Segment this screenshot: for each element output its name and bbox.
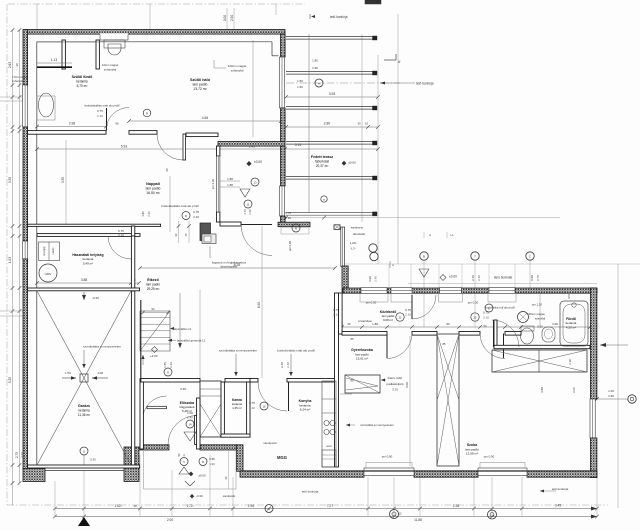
svg-text:7.27: 7.27 <box>327 504 333 508</box>
svg-text:pm 1,20: pm 1,20 <box>532 303 543 307</box>
svg-text:30: 30 <box>15 63 19 67</box>
svg-text:1.98: 1.98 <box>453 504 459 508</box>
svg-text:0.00: 0.00 <box>223 15 227 21</box>
svg-text:29,25 m²: 29,25 m² <box>147 287 160 291</box>
svg-text:1.55: 1.55 <box>163 362 167 368</box>
svg-text:1.50: 1.50 <box>312 66 318 70</box>
svg-text:2.40: 2.40 <box>147 211 151 217</box>
svg-text:12: 12 <box>398 512 402 516</box>
svg-text:zuhanyfal: zuhanyfal <box>12 79 24 83</box>
svg-text:pm 3,30: pm 3,30 <box>211 179 215 190</box>
svg-text:R: R <box>146 112 148 116</box>
svg-text:1,20¹: 1,20¹ <box>350 241 357 245</box>
svg-text:2.10: 2.10 <box>483 316 489 320</box>
svg-text:lam padló: lam padló <box>193 83 208 87</box>
svg-text:3.80: 3.80 <box>540 387 544 393</box>
svg-text:120cm magas: 120cm magas <box>228 64 247 68</box>
svg-text:3.88: 3.88 <box>81 278 88 282</box>
svg-text:±0.00: ±0.00 <box>449 275 457 279</box>
svg-text:1,35 m²: 1,35 m² <box>232 406 242 410</box>
svg-text:1.93: 1.93 <box>8 257 12 263</box>
svg-text:2.18: 2.18 <box>568 359 572 365</box>
svg-text:1.00: 1.00 <box>608 389 614 393</box>
svg-text:1.80: 1.80 <box>312 59 318 63</box>
svg-text:±0.00: ±0.00 <box>254 160 262 164</box>
svg-text:kéménypillér: kéménypillér <box>221 265 238 269</box>
svg-text:1.5%: 1.5% <box>65 371 72 375</box>
svg-text:3.35: 3.35 <box>8 177 12 183</box>
svg-text:2.48: 2.48 <box>248 209 252 215</box>
svg-text:szóróbálata a mennyezeten: szóróbálata a mennyezeten <box>219 349 257 353</box>
svg-text:0.75: 0.75 <box>97 109 103 113</box>
svg-text:sarokpocki: sarokpocki <box>263 441 277 445</box>
svg-text:0.75: 0.75 <box>536 275 540 281</box>
svg-text:sarokpocki: sarokpocki <box>223 494 236 498</box>
svg-text:Fakro OAK: Fakro OAK <box>388 376 403 380</box>
svg-text:3.00: 3.00 <box>368 276 372 282</box>
svg-text:6.00: 6.00 <box>405 382 409 388</box>
svg-text:13,72 m²: 13,72 m² <box>193 87 207 91</box>
svg-text:m: m <box>323 198 325 201</box>
svg-text:padlásfeljáró: padlásfeljáró <box>386 382 403 386</box>
svg-text:6.90: 6.90 <box>257 302 261 308</box>
svg-text:80: 80 <box>446 322 450 326</box>
svg-text:5.15: 5.15 <box>295 143 302 147</box>
svg-text:-0.30: -0.30 <box>196 494 203 498</box>
svg-text:lapszállító gerenda L2: lapszállító gerenda L2 <box>177 339 206 343</box>
svg-text:120cm magas: 120cm magas <box>527 312 545 316</box>
svg-text:5.93: 5.93 <box>121 145 128 149</box>
svg-text:90: 90 <box>115 122 119 126</box>
svg-text:±0.00: ±0.00 <box>198 474 206 478</box>
svg-text:+2.00: +2.00 <box>150 354 158 358</box>
svg-text:oozo: oozo <box>326 445 332 448</box>
svg-text:11,36 m²: 11,36 m² <box>78 413 90 417</box>
svg-text:4,50 m²: 4,50 m² <box>566 325 576 329</box>
svg-text:5,49 m²: 5,49 m² <box>83 261 93 265</box>
svg-text:2.40: 2.40 <box>477 275 481 281</box>
svg-text:3.00: 3.00 <box>552 322 558 326</box>
svg-text:2.10: 2.10 <box>118 233 124 237</box>
svg-text:11.88: 11.88 <box>414 518 422 522</box>
svg-text:tető kontúrja: tető kontúrja <box>552 487 569 491</box>
svg-text:2.10: 2.10 <box>97 114 103 118</box>
svg-text:1.50: 1.50 <box>297 85 303 89</box>
svg-text:2.50: 2.50 <box>230 15 234 21</box>
svg-text:mosógép: mosógép <box>44 246 46 256</box>
svg-text:±0.00: ±0.00 <box>348 161 356 165</box>
svg-text:pm 0,90: pm 0,90 <box>382 455 393 459</box>
svg-text:MGG: MGG <box>277 455 287 460</box>
svg-text:szanitfal: szanitfal <box>535 317 546 321</box>
svg-text:2.40: 2.40 <box>374 276 378 282</box>
svg-text:0.75: 0.75 <box>249 401 255 405</box>
svg-text:3,70: 3,70 <box>392 388 398 392</box>
svg-text:B: B <box>423 255 425 259</box>
svg-text:6,70 m²: 6,70 m² <box>77 84 88 88</box>
svg-text:10: 10 <box>365 122 369 126</box>
svg-text:6,3¹: 6,3¹ <box>351 247 356 251</box>
svg-text:burkolóváltás matt alu profil: burkolóváltás matt alu profil <box>277 349 315 353</box>
svg-text:Fedett terasz: Fedett terasz <box>311 155 333 159</box>
svg-text:0.75: 0.75 <box>405 308 411 312</box>
svg-text:szárító: szárító <box>52 247 55 255</box>
svg-text:1.90: 1.90 <box>209 462 215 466</box>
svg-text:2.10: 2.10 <box>471 275 475 281</box>
svg-text:A: A <box>429 233 431 237</box>
svg-text:0.98: 0.98 <box>209 457 215 461</box>
svg-text:0.30: 0.30 <box>180 387 186 391</box>
svg-text:2.10: 2.10 <box>193 215 199 219</box>
svg-text:-0.30: -0.30 <box>92 296 99 300</box>
svg-text:lam padló: lam padló <box>146 282 160 286</box>
svg-text:2.40: 2.40 <box>187 416 193 420</box>
svg-text:1.13: 1.13 <box>51 58 57 62</box>
svg-text:G: G <box>167 371 169 375</box>
svg-text:13,01 m²: 13,01 m² <box>356 357 368 361</box>
svg-text:10: 10 <box>133 504 137 508</box>
svg-text:tető kontúrja: tető kontúrja <box>416 82 434 86</box>
svg-text:2.63: 2.63 <box>8 62 12 68</box>
svg-text:2.40: 2.40 <box>280 362 284 368</box>
svg-text:R: R <box>295 227 297 231</box>
svg-text:Garázs: Garázs <box>78 404 90 408</box>
svg-text:A': A' <box>398 60 401 64</box>
svg-text:14: 14 <box>188 423 192 427</box>
svg-text:kerámia: kerámia <box>78 408 90 412</box>
svg-text:1.52¹: 1.52¹ <box>114 504 121 508</box>
svg-text:tető kontúrja: tető kontúrja <box>302 490 319 494</box>
svg-text:tető kontúrja: tető kontúrja <box>330 15 348 19</box>
svg-text:Nappali: Nappali <box>146 182 160 186</box>
svg-text:faburkolat: faburkolat <box>315 159 329 163</box>
svg-text:A: A <box>392 263 394 267</box>
svg-text:2.10: 2.10 <box>333 313 339 317</box>
svg-text:L1: L1 <box>450 233 454 237</box>
svg-text:lam padló: lam padló <box>146 187 161 191</box>
svg-text:1.72¹: 1.72¹ <box>186 504 193 508</box>
svg-text:16: 16 <box>262 405 266 409</box>
svg-text:2.40: 2.40 <box>286 362 290 368</box>
svg-text:sarokromb: sarokromb <box>351 225 364 229</box>
svg-text:szórváltás a mennyezeten: szórváltás a mennyezeten <box>360 423 394 427</box>
svg-text:zuhanyfal: zuhanyfal <box>231 69 244 73</box>
svg-text:zuhanyfal: zuhanyfal <box>104 68 117 72</box>
svg-text:burkolatváltás matt alu profil: burkolatváltás matt alu profil <box>161 204 199 208</box>
svg-text:lanó burkolat: lanó burkolat <box>494 276 512 280</box>
svg-text:Szülői fürdő: Szülői fürdő <box>72 75 94 79</box>
svg-text:faburkolat: faburkolat <box>353 232 365 236</box>
svg-text:7.5cm magas: 7.5cm magas <box>12 75 29 79</box>
svg-text:3.93: 3.93 <box>329 92 336 96</box>
svg-text:HMV: HMV <box>45 272 52 276</box>
svg-text:5,20: 5,20 <box>537 325 543 329</box>
svg-text:30: 30 <box>165 168 169 172</box>
svg-text:1.80: 1.80 <box>141 211 145 217</box>
svg-text:1.98: 1.98 <box>248 504 254 508</box>
svg-text:12,09 m²: 12,09 m² <box>466 452 478 456</box>
svg-text:szmértékas: szmértékas <box>358 319 372 323</box>
svg-text:4.65: 4.65 <box>202 116 209 120</box>
svg-text:pm 0,30: pm 0,30 <box>468 301 479 305</box>
svg-text:Étkező: Étkező <box>147 277 159 282</box>
svg-text:2.40: 2.40 <box>169 362 173 368</box>
svg-text:16,50 m²: 16,50 m² <box>146 191 160 195</box>
svg-text:G: G <box>83 450 85 454</box>
svg-text:12cm magas: 12cm magas <box>102 63 119 67</box>
svg-text:30: 30 <box>357 122 361 126</box>
svg-text:2.00: 2.00 <box>167 518 173 522</box>
svg-text:1.50: 1.50 <box>297 79 303 83</box>
svg-text:3.35: 3.35 <box>61 177 65 183</box>
svg-text:pm 0,30: pm 0,30 <box>366 301 377 305</box>
svg-text:szóróbálata a mennyezeten: szóróbálata a mennyezeten <box>83 345 121 349</box>
svg-text:R: R <box>185 214 187 218</box>
svg-text:1.88: 1.88 <box>227 183 233 187</box>
svg-text:2.98: 2.98 <box>69 122 75 126</box>
svg-text:2.80: 2.80 <box>324 122 331 126</box>
svg-text:3.45: 3.45 <box>555 504 561 508</box>
svg-text:22: 22 <box>398 316 402 320</box>
svg-text:1.88: 1.88 <box>372 322 378 326</box>
svg-text:R: R <box>202 460 204 464</box>
svg-text:2.10: 2.10 <box>285 216 291 220</box>
svg-text:1.74: 1.74 <box>243 209 247 215</box>
svg-text:2.75: 2.75 <box>15 452 19 458</box>
svg-text:lapszállító L3: lapszállító L3 <box>174 327 191 331</box>
svg-text:13: 13 <box>253 181 257 185</box>
svg-text:0.75: 0.75 <box>333 308 339 312</box>
svg-text:1.88: 1.88 <box>227 177 233 181</box>
svg-text:pm 0,00: pm 0,00 <box>288 241 292 251</box>
svg-text:2.10: 2.10 <box>249 406 255 410</box>
svg-text:kerámia: kerámia <box>76 79 88 83</box>
svg-text:5.25: 5.25 <box>8 377 12 383</box>
svg-text:burkolatváltás matt alu profil: burkolatváltás matt alu profil <box>85 104 120 108</box>
svg-text:22: 22 <box>473 316 477 320</box>
svg-text:1.50: 1.50 <box>608 394 614 398</box>
svg-text:0.90: 0.90 <box>530 275 534 281</box>
svg-text:6.00: 6.00 <box>572 387 576 393</box>
svg-text:0.75: 0.75 <box>285 211 291 215</box>
svg-text:6,24 m²: 6,24 m² <box>300 408 311 412</box>
svg-text:11: 11 <box>247 203 250 207</box>
svg-text:pm 0,90: pm 0,90 <box>484 455 495 459</box>
svg-text:-0.38: -0.38 <box>97 371 103 375</box>
svg-text:9,08 m²: 9,08 m² <box>383 318 393 322</box>
svg-text:Szülői háló: Szülői háló <box>190 78 211 82</box>
svg-text:20,37 m²: 20,37 m² <box>316 164 329 168</box>
svg-text:0.30: 0.30 <box>90 458 96 462</box>
svg-text:5,48 m²: 5,48 m² <box>182 409 192 413</box>
svg-text:0.75: 0.75 <box>193 210 199 214</box>
svg-text:2.10: 2.10 <box>405 313 411 317</box>
